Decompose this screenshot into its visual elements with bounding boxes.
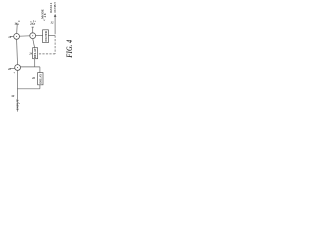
svg-text:26: 26 — [31, 76, 36, 80]
wire B right — [36, 35, 43, 37]
svg-text:+: + — [13, 71, 15, 75]
svg-text:4 8: 4 8 — [43, 13, 47, 17]
output arrowhead — [54, 14, 57, 17]
wire block 22 right — [49, 35, 56, 37]
svg-text:INPUT: INPUT — [16, 98, 20, 110]
wire node C to node A — [16, 39, 19, 64]
svg-text:DATA 1: DATA 1 — [49, 2, 53, 13]
wire output vertical dashed — [54, 32, 56, 54]
wire B up terminal — [32, 27, 34, 33]
wire A left stub — [10, 36, 13, 38]
block 22 filter — [43, 30, 49, 43]
svg-text:30: 30 — [10, 94, 15, 98]
wire mid horizontal — [21, 66, 40, 68]
wire C left stub — [11, 67, 15, 69]
summing junction 14 — [30, 33, 36, 39]
wire block 26 bottom — [39, 85, 41, 89]
summing junction 16 — [15, 65, 21, 71]
svg-text:18: 18 — [8, 35, 12, 39]
svg-text:DELAY: DELAY — [33, 47, 37, 58]
summing junction 12 — [14, 34, 20, 40]
svg-text:24: 24 — [28, 51, 33, 55]
block 26 delay — [38, 73, 43, 85]
svg-text:32: 32 — [50, 21, 54, 25]
tick below vertical label — [43, 20, 45, 21]
svg-text:DELAY: DELAY — [38, 73, 42, 84]
block 24 delay — [33, 48, 38, 59]
wire output vertical solid — [54, 17, 56, 33]
wire corner down to block 26 — [39, 67, 41, 73]
wire input vertical — [16, 70, 18, 111]
wire block 24 down — [34, 59, 36, 67]
svg-text:16: 16 — [14, 22, 18, 26]
svg-text:x 5+: x 5+ — [29, 21, 36, 24]
svg-text:OUTPUT: OUTPUT — [54, 2, 57, 13]
wire bottom horizontal — [17, 88, 40, 90]
wire dashed horizontal to block 24 — [38, 53, 55, 55]
wire B down to block 24 — [33, 39, 35, 48]
node dot above A — [18, 21, 19, 22]
svg-text:28: 28 — [7, 67, 12, 71]
svg-text:FIG. 4: FIG. 4 — [65, 39, 74, 57]
tick right of input line — [19, 103, 20, 105]
svg-text:FILTER: FILTER — [44, 30, 48, 41]
wire A to B — [20, 35, 30, 37]
wire A up terminal — [15, 24, 19, 33]
